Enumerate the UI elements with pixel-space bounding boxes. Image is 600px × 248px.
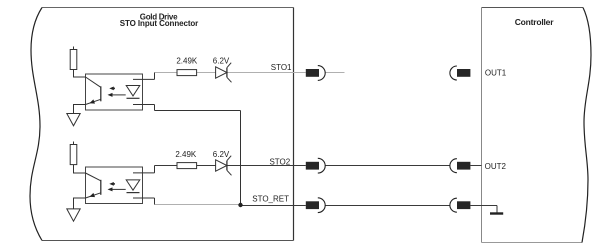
svg-text:STO1: STO1 [271, 63, 292, 72]
svg-text:STO_RET: STO_RET [252, 194, 289, 203]
svg-text:STO2: STO2 [269, 157, 290, 166]
svg-text:6.2V: 6.2V [213, 150, 230, 159]
svg-text:Controller: Controller [515, 17, 555, 27]
svg-text:2.49K: 2.49K [175, 150, 197, 159]
svg-text:STO Input Connector: STO Input Connector [120, 19, 198, 28]
svg-text:OUT2: OUT2 [485, 162, 507, 171]
svg-text:2.49K: 2.49K [176, 56, 198, 65]
svg-text:OUT1: OUT1 [485, 68, 507, 77]
svg-text:6.2V: 6.2V [213, 56, 230, 65]
